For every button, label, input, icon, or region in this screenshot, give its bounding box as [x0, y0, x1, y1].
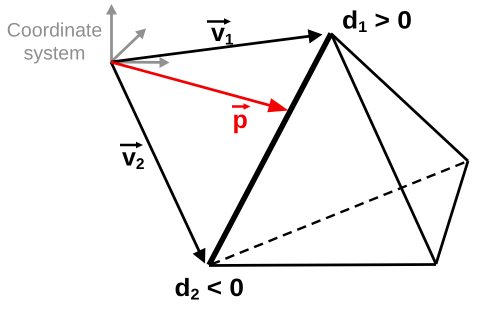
vector p (red arrow A to shared edge) — [111, 62, 289, 112]
svg-text:v2: v2 — [122, 144, 145, 174]
svg-text:v1: v1 — [211, 19, 234, 49]
label v1 — [207, 18, 234, 48]
vector v1 (edge A-B with arrowhead) — [111, 29, 323, 62]
gray axis arrow diagonal — [111, 29, 146, 63]
edge B-D (top vertex to right vertex) — [331, 34, 468, 162]
gray axis arrow right — [111, 57, 170, 68]
svg-text:Coordinate: Coordinate — [7, 20, 102, 42]
dashed edge C-D — [211, 161, 468, 265]
vector v2 (edge A-C with arrowhead) — [111, 62, 205, 264]
svg-text:d2 < 0: d2 < 0 — [175, 274, 244, 304]
thick shared edge B-C — [209, 34, 331, 266]
label v2 — [120, 142, 145, 173]
svg-text:p: p — [233, 106, 248, 134]
gray axis arrow up — [106, 4, 117, 62]
edge C-E (bottom edge) — [209, 265, 436, 266]
svg-text:system: system — [24, 43, 86, 65]
edge D-E (right vertex to bottom-right vertex) — [436, 161, 468, 264]
edge B-E (top vertex to bottom-right vertex) — [331, 34, 436, 265]
svg-text:d1 > 0: d1 > 0 — [342, 7, 412, 37]
label p (red) — [232, 103, 251, 134]
